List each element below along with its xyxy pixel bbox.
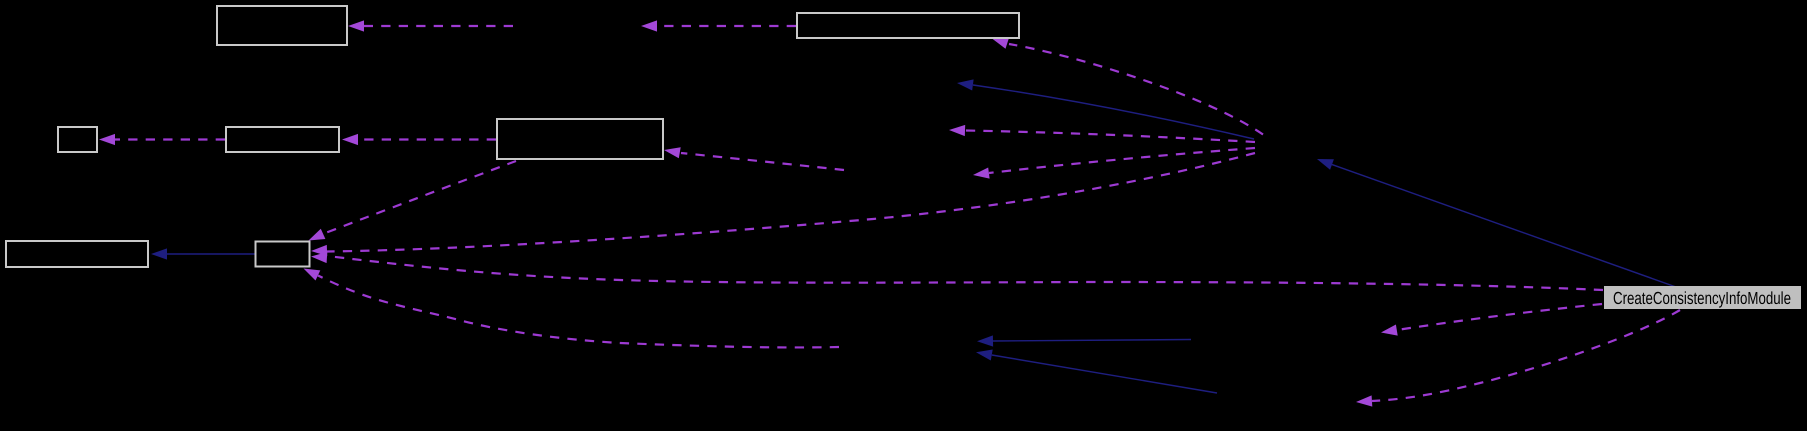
- svg-text:CreateConsistencyInfoModule: CreateConsistencyInfoModule: [1613, 288, 1791, 308]
